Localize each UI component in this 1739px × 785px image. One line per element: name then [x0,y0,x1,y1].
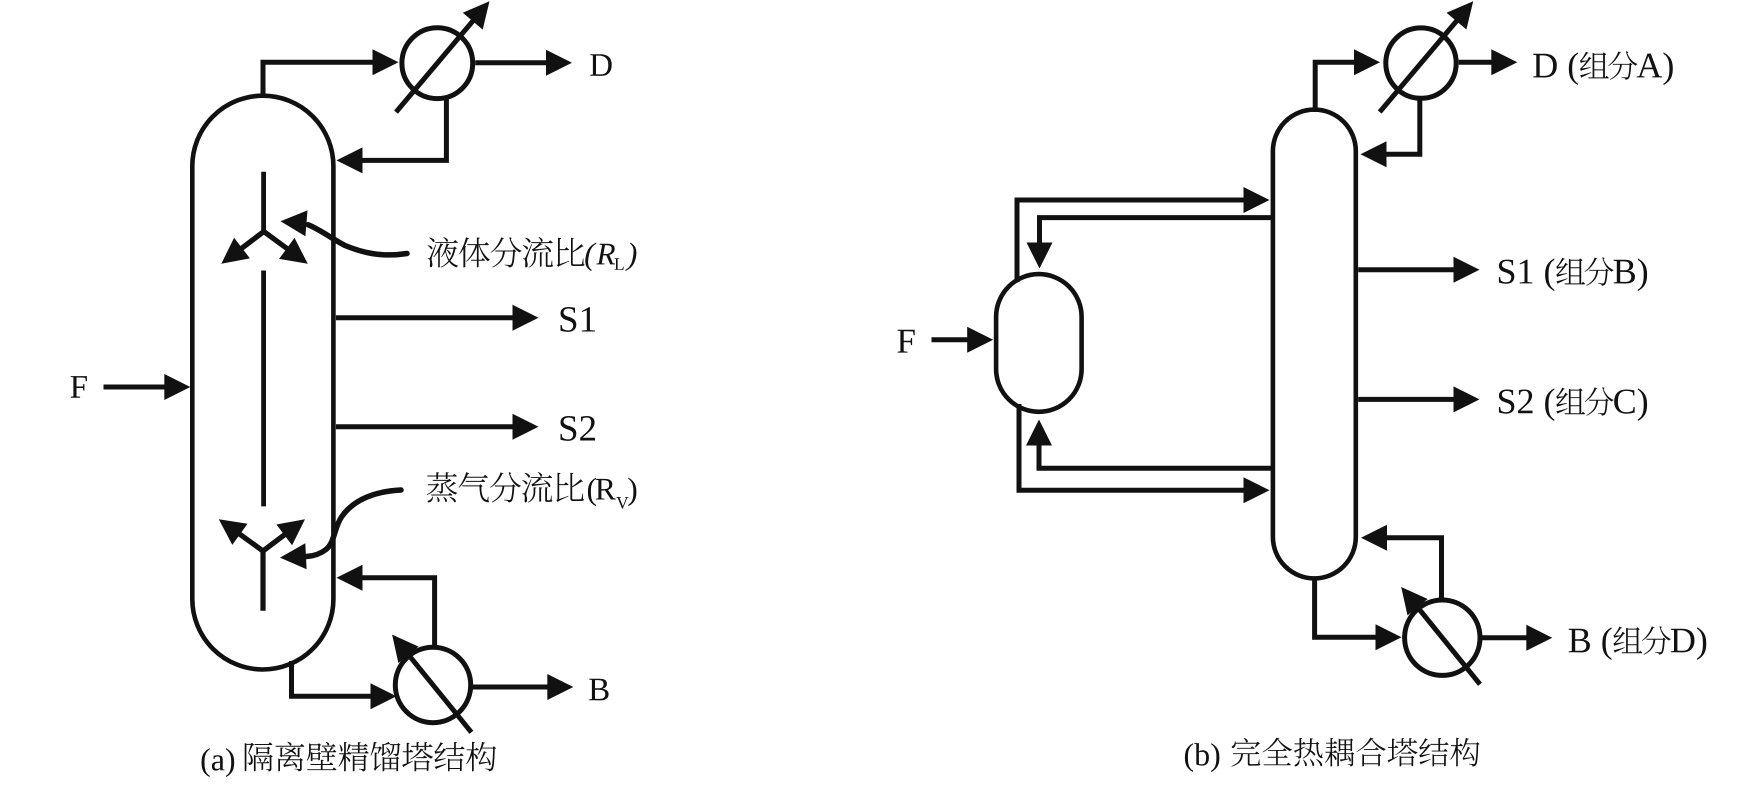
label S1 [561,307,595,332]
wire: bottoms product line (b) [1480,625,1552,651]
wire: side product S1 line [336,305,539,331]
wire: side product S2 line [336,414,539,440]
wire: bottoms product line [471,674,574,700]
dividing wall upper segment [261,172,266,232]
label S2 [561,416,596,441]
wire: boilup return line to column [337,565,435,648]
main column C2 shell [1273,110,1356,579]
label: liquid split ratio (RL) [427,237,636,271]
dividing wall middle segment [261,271,266,507]
wire: prefractionator overhead vapor to main column [1017,187,1270,282]
label S2 (component C) [1499,387,1647,421]
wire: prefractionator bottoms liquid to main column [1019,404,1270,503]
reboiler E2 (circle with diagonal arrow) [392,635,471,733]
wire: distillate product line [475,50,572,76]
label F [71,376,87,398]
label D (component A) [1533,51,1673,85]
label F (b) [898,330,915,353]
condenser E3 (circle with diagonal arrow) [1380,1,1474,112]
leader curve to vapor split label [280,490,401,569]
label B (component D) [1569,626,1707,660]
wire: side product S2 line (b) [1358,386,1479,412]
distillation column C1 (dividing wall column shell) [192,96,333,670]
wire: feed F line (b) [932,327,994,353]
label D [590,54,612,76]
wire: feed F line [104,374,191,400]
label: vapor split ratio (RV) [427,472,637,509]
wire: liquid from main column to prefractionator top [1027,218,1272,269]
liquid split symbol (liquid split ratio RL) [221,232,307,264]
wire: reflux line (b) [1361,99,1420,167]
wire: distillate product line (b) [1459,49,1518,75]
wire: overhead vapor line to condenser [263,49,399,98]
wire: reflux line from condenser to column [337,99,447,173]
wire: side product S1 line (b) [1358,257,1479,283]
wire: bottoms line to reboiler [292,661,397,709]
prefractionator C3 shell [996,274,1082,412]
wire: vapor from main column to prefractionator bottom [1026,420,1272,469]
wire: overhead vapor line to condenser (b) [1315,49,1380,112]
caption (a) dividing wall distillation column structure [202,742,497,777]
reboiler E4 (circle with diagonal arrow) [1401,587,1480,684]
label S1 (component B) [1499,257,1647,291]
wire: boilup return line (b) [1361,525,1442,601]
caption (b) fully thermally coupled column structure [1185,738,1480,772]
wire: bottoms line to reboiler (b) [1315,577,1402,650]
leader curve to liquid split label [281,210,408,255]
label B [589,679,608,701]
condenser E1 (circle with diagonal arrow) [396,1,490,112]
vapor split symbol (vapor split ratio RV) [219,519,305,611]
